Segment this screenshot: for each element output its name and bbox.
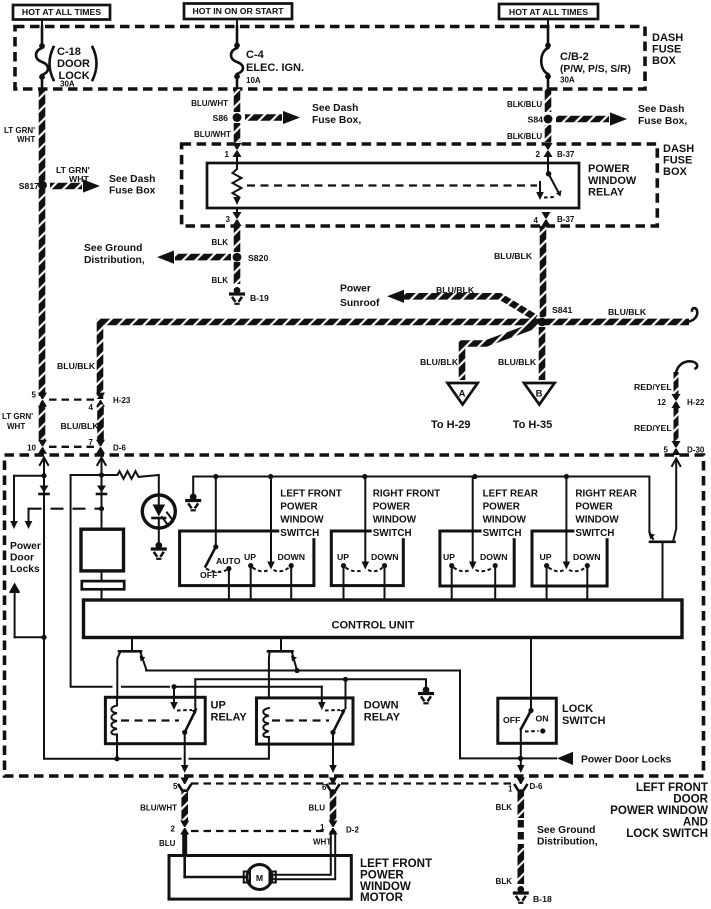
svg-text:5: 5 xyxy=(173,782,178,791)
svg-text:LEFT REAR: LEFT REAR xyxy=(483,489,538,500)
svg-text:DOWN: DOWN xyxy=(278,552,306,562)
svg-text:WINDOW: WINDOW xyxy=(483,515,527,526)
svg-text:UP: UP xyxy=(540,552,552,562)
svg-text:BLU: BLU xyxy=(309,804,326,813)
svg-text:2: 2 xyxy=(171,825,176,834)
svg-text:B-37: B-37 xyxy=(557,215,575,224)
svg-text:LEFT FRONT: LEFT FRONT xyxy=(280,489,341,500)
svg-text:DOWN: DOWN xyxy=(480,552,508,562)
svg-text:See Dash: See Dash xyxy=(638,104,684,115)
svg-text:RIGHT FRONT: RIGHT FRONT xyxy=(373,489,440,500)
svg-text:SWITCH: SWITCH xyxy=(562,715,605,727)
svg-text:DASH: DASH xyxy=(663,143,694,155)
svg-text:SWITCH: SWITCH xyxy=(280,528,319,539)
svg-text:B: B xyxy=(536,389,543,400)
svg-text:5: 5 xyxy=(32,391,37,400)
svg-text:HOT AT ALL TIMES: HOT AT ALL TIMES xyxy=(22,7,101,17)
svg-text:30A: 30A xyxy=(560,76,575,85)
svg-text:HOT AT ALL TIMES: HOT AT ALL TIMES xyxy=(509,7,588,17)
svg-text:M: M xyxy=(256,873,263,883)
svg-text:Power: Power xyxy=(340,284,371,295)
svg-text:H-23: H-23 xyxy=(113,396,131,405)
svg-text:Power Door Locks: Power Door Locks xyxy=(581,755,672,766)
svg-text:See Dash: See Dash xyxy=(109,174,155,185)
svg-text:BLU: BLU xyxy=(159,839,176,848)
svg-text:(P/W, P/S, S/R): (P/W, P/S, S/R) xyxy=(560,64,631,75)
svg-text:See Dash: See Dash xyxy=(312,103,358,114)
svg-text:S820: S820 xyxy=(248,253,268,263)
svg-text:D-6: D-6 xyxy=(113,444,126,453)
svg-text:Fuse Box: Fuse Box xyxy=(109,186,156,197)
svg-text:To H-35: To H-35 xyxy=(513,419,553,431)
svg-text:RIGHT REAR: RIGHT REAR xyxy=(575,489,636,500)
svg-text:A: A xyxy=(459,389,466,400)
svg-text:BOX: BOX xyxy=(663,166,688,178)
svg-text:BLU/WHT: BLU/WHT xyxy=(191,99,228,108)
svg-text:C/B-2: C/B-2 xyxy=(560,51,589,63)
svg-text:B-37: B-37 xyxy=(557,150,575,159)
svg-text:BLK/BLU: BLK/BLU xyxy=(507,132,542,141)
svg-text:DOWN: DOWN xyxy=(371,552,399,562)
svg-text:RELAY: RELAY xyxy=(211,712,248,724)
svg-text:WHT: WHT xyxy=(69,174,89,184)
svg-text:Power: Power xyxy=(10,541,41,552)
svg-text:LT GRN': LT GRN' xyxy=(4,126,35,135)
svg-text:10: 10 xyxy=(27,444,36,453)
svg-text:Fuse Box,: Fuse Box, xyxy=(638,116,687,127)
svg-text:S86: S86 xyxy=(213,113,229,123)
svg-text:WINDOW: WINDOW xyxy=(373,515,417,526)
svg-text:SWITCH: SWITCH xyxy=(373,528,412,539)
svg-text:UP: UP xyxy=(337,552,349,562)
svg-text:S817: S817 xyxy=(19,181,39,191)
svg-text:DOOR: DOOR xyxy=(57,58,90,70)
svg-text:7: 7 xyxy=(89,438,94,447)
svg-text:BLU/BLK: BLU/BLK xyxy=(608,307,647,317)
svg-text:BLK: BLK xyxy=(496,803,513,812)
svg-text:POWER: POWER xyxy=(280,502,317,513)
svg-text:To H-29: To H-29 xyxy=(431,419,471,431)
svg-text:See Ground: See Ground xyxy=(84,243,142,254)
svg-text:POWER: POWER xyxy=(373,502,410,513)
svg-text:B-18: B-18 xyxy=(533,894,552,904)
svg-text:BLU/BLK: BLU/BLK xyxy=(57,361,96,371)
svg-text:6: 6 xyxy=(322,783,327,792)
svg-text:See Ground: See Ground xyxy=(537,825,595,836)
svg-text:Distribution,: Distribution, xyxy=(537,837,598,848)
svg-text:Sunroof: Sunroof xyxy=(340,298,380,309)
svg-text:H-22: H-22 xyxy=(687,398,705,407)
svg-text:WINDOW: WINDOW xyxy=(588,175,637,187)
svg-text:BLU/BLK: BLU/BLK xyxy=(498,357,537,367)
svg-text:DASH: DASH xyxy=(652,32,683,44)
svg-text:SWITCH: SWITCH xyxy=(575,528,614,539)
svg-text:30A: 30A xyxy=(60,80,75,89)
svg-text:Locks: Locks xyxy=(10,564,40,575)
svg-text:4: 4 xyxy=(89,403,94,412)
svg-text:BLU/BLK: BLU/BLK xyxy=(61,421,100,431)
svg-text:WHT: WHT xyxy=(17,135,35,144)
svg-text:Distribution,: Distribution, xyxy=(84,255,145,266)
svg-text:D-2: D-2 xyxy=(346,826,359,835)
svg-text:LOCK SWITCH: LOCK SWITCH xyxy=(626,827,708,840)
svg-text:5: 5 xyxy=(664,446,669,455)
svg-text:OFF: OFF xyxy=(503,715,520,725)
svg-text:RED/YEL: RED/YEL xyxy=(634,382,672,392)
svg-text:RELAY: RELAY xyxy=(588,187,625,199)
svg-text:FUSE: FUSE xyxy=(663,155,692,167)
svg-text:DOWN: DOWN xyxy=(573,552,601,562)
svg-text:UP: UP xyxy=(244,552,256,562)
svg-text:WINDOW: WINDOW xyxy=(280,515,324,526)
svg-text:LT GRN': LT GRN' xyxy=(2,412,33,421)
svg-text:RED/YEL: RED/YEL xyxy=(634,423,672,433)
svg-text:BLU/WHT: BLU/WHT xyxy=(194,130,231,139)
svg-text:UP: UP xyxy=(443,552,455,562)
svg-text:FUSE: FUSE xyxy=(652,44,681,56)
svg-text:B-19: B-19 xyxy=(250,293,269,303)
svg-text:BLK: BLK xyxy=(212,276,229,285)
svg-text:POWER: POWER xyxy=(483,502,520,513)
svg-text:AUTO: AUTO xyxy=(216,556,241,566)
svg-text:3: 3 xyxy=(226,215,231,224)
svg-text:BLU/BLK: BLU/BLK xyxy=(420,357,459,367)
svg-text:BLU/WHT: BLU/WHT xyxy=(140,804,177,813)
svg-text:BLU/BLK: BLU/BLK xyxy=(436,285,475,295)
svg-text:POWER: POWER xyxy=(575,502,612,513)
svg-text:10A: 10A xyxy=(246,76,261,85)
svg-text:BLK: BLK xyxy=(496,877,513,886)
svg-text:WINDOW: WINDOW xyxy=(575,515,619,526)
svg-text:C-4: C-4 xyxy=(246,49,265,61)
svg-text:DOWN: DOWN xyxy=(364,700,399,712)
svg-text:BLK/BLU: BLK/BLU xyxy=(507,100,542,109)
svg-text:ELEC. IGN.: ELEC. IGN. xyxy=(246,62,304,74)
svg-text:RELAY: RELAY xyxy=(364,712,401,724)
svg-text:4: 4 xyxy=(534,216,539,225)
svg-text:1: 1 xyxy=(225,150,230,159)
svg-text:SWITCH: SWITCH xyxy=(483,528,522,539)
svg-text:HOT IN ON OR START: HOT IN ON OR START xyxy=(192,6,284,16)
svg-text:D-30: D-30 xyxy=(687,446,705,455)
svg-text:BOX: BOX xyxy=(652,55,677,67)
svg-text:Fuse Box,: Fuse Box, xyxy=(312,115,361,126)
svg-text:POWER: POWER xyxy=(588,163,630,175)
svg-text:LOCK: LOCK xyxy=(562,703,593,715)
svg-text:BLK: BLK xyxy=(212,238,229,247)
svg-text:ON: ON xyxy=(536,714,549,724)
svg-text:UP: UP xyxy=(211,700,226,712)
svg-text:WHT: WHT xyxy=(313,838,331,847)
svg-text:Door: Door xyxy=(10,553,34,564)
svg-text:1: 1 xyxy=(508,785,513,794)
svg-text:WHT: WHT xyxy=(7,422,25,431)
svg-text:CONTROL UNIT: CONTROL UNIT xyxy=(332,620,415,632)
svg-text:S84: S84 xyxy=(528,115,544,125)
svg-text:2: 2 xyxy=(536,150,541,159)
svg-text:D-6: D-6 xyxy=(530,782,543,791)
svg-text:BLU/BLK: BLU/BLK xyxy=(494,251,533,261)
svg-text:12: 12 xyxy=(657,398,666,407)
svg-text:C-18: C-18 xyxy=(57,46,81,58)
svg-text:S841: S841 xyxy=(552,305,572,315)
svg-text:MOTOR: MOTOR xyxy=(360,891,404,904)
